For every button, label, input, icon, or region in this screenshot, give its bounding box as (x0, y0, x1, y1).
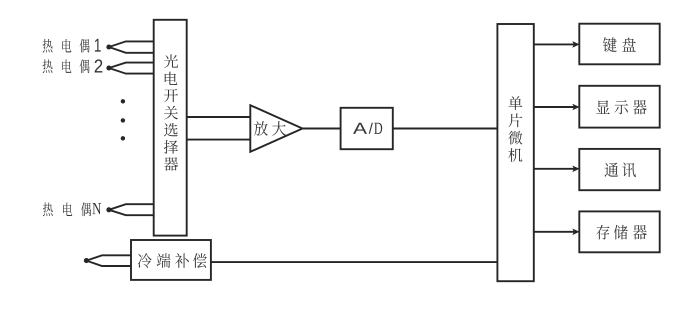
label 放大 (254, 121, 286, 136)
thermocouple TC1 symbol and leads (106, 41, 153, 52)
thermocouple TCN symbol and leads (106, 204, 153, 215)
label 冷端补偿 (138, 253, 207, 268)
box U3 A/D converter (341, 108, 393, 149)
box U1 光电开关选择器 (photoelectric switch selector) (154, 20, 187, 236)
label 热电偶N (43, 202, 101, 216)
label 通讯 (604, 163, 635, 178)
label 光电开关选择器 (vertical) (164, 54, 178, 170)
box U4 单片微机 (single-chip microcomputer) (497, 24, 533, 281)
wire: A/D output to microcontroller (393, 128, 498, 130)
box 存储器 (memory) (579, 211, 659, 252)
label A/D (353, 123, 382, 134)
wire with arrow: microcontroller to keyboard (534, 41, 580, 48)
label 热电偶1 (43, 39, 101, 53)
thermocouple symbol at cold junction input (84, 255, 131, 266)
box 键盘 (keyboard) (579, 24, 659, 65)
wire with arrow: microcontroller to communication (534, 166, 580, 173)
wire: cold junction compensation to microcontroller (211, 261, 498, 263)
thermocouple TC2 symbol and leads (106, 63, 153, 74)
label 存储器 (596, 225, 647, 240)
wire with arrow: microcontroller to display (534, 104, 580, 111)
wire: amplifier output to A/D (302, 128, 341, 130)
wire with arrow: microcontroller to memory (534, 229, 580, 236)
label 键盘 (603, 37, 636, 52)
label 显示器 (596, 100, 646, 114)
box U5 冷端补偿 (cold junction compensation) (131, 240, 211, 280)
op-amp U2 amplifier triangle 放大 (250, 105, 302, 152)
label 热电偶2 (43, 59, 103, 73)
box 显示器 (display) (579, 86, 659, 128)
wire: selector to amplifier upper input (187, 116, 251, 118)
ellipsis dots between TC2 and TCN (121, 99, 125, 140)
label 单片微机 (vertical) (508, 96, 522, 162)
wire: selector to amplifier lower input (187, 139, 251, 141)
box 通讯 (communication) (579, 149, 659, 190)
